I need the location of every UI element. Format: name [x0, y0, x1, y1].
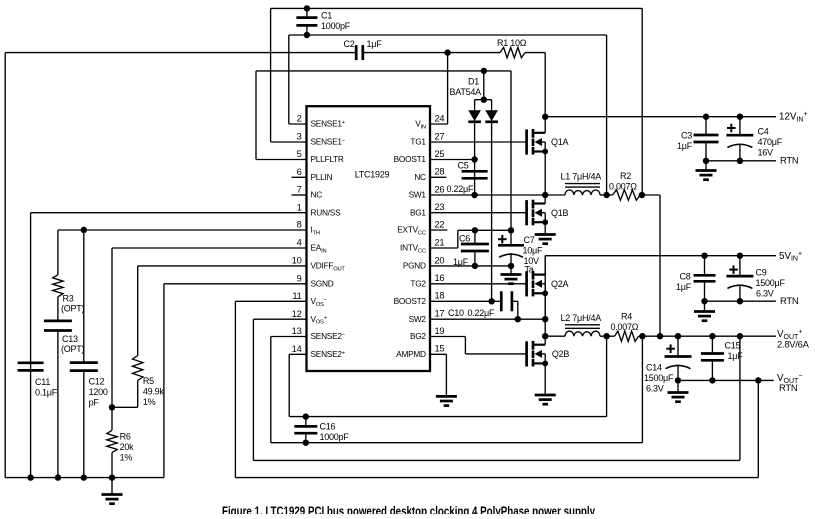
resistor R3 (OPT) [57, 230, 59, 275]
svg-text:470μF: 470μF [758, 137, 783, 147]
svg-text:PLLIN: PLLIN [311, 172, 333, 182]
svg-text:0.22μF: 0.22μF [468, 308, 495, 318]
svg-text:3: 3 [297, 132, 302, 142]
node VOS+ tap [737, 333, 743, 339]
svg-text:6: 6 [297, 167, 302, 177]
svg-text:Q1A: Q1A [551, 137, 569, 147]
svg-text:L2 7μH/4A: L2 7μH/4A [561, 313, 602, 323]
svg-text:22: 22 [435, 219, 445, 229]
node VIN feed junction [444, 49, 450, 55]
svg-text:C3: C3 [681, 131, 692, 141]
EXTVCC pin 22 stub [430, 229, 447, 231]
wire SENSE2+ tap down [606, 336, 608, 416]
inductor L2 7uH/4A [545, 335, 565, 337]
svg-text:C15: C15 [725, 341, 741, 351]
svg-text:Q1B: Q1B [551, 208, 569, 218]
wire D1 left cathode to BOOST1 [474, 122, 476, 195]
wire VOS+ sense run [253, 318, 306, 320]
wire BOOST1 pin [430, 159, 475, 161]
wire ITH row [58, 229, 307, 231]
svg-text:16V: 16V [758, 148, 774, 158]
capacitor C9 (electrolytic) [737, 253, 743, 259]
svg-text:BOOST1: BOOST1 [394, 154, 427, 164]
capacitor C10 [430, 300, 501, 302]
wire far-left vertical [4, 53, 6, 478]
resistor R4 0.007ohm [615, 331, 639, 341]
svg-text:1μF: 1μF [367, 39, 383, 49]
svg-text:PGND: PGND [403, 261, 426, 271]
capacitor C1 [304, 5, 310, 11]
wire SENSE1+ vertical left [288, 35, 290, 124]
node D1 anode tap [481, 68, 487, 74]
node SW2 [542, 316, 548, 322]
svg-text:BG1: BG1 [410, 207, 426, 217]
wire SGND down [164, 283, 307, 285]
svg-text:(OPT): (OPT) [61, 304, 84, 314]
wire AMPMD pin to ground [430, 353, 446, 355]
svg-text:21: 21 [435, 237, 445, 247]
svg-text:R4: R4 [621, 312, 632, 322]
svg-text:15: 15 [435, 344, 445, 354]
svg-text:C2: C2 [343, 39, 354, 49]
svg-text:2.8V/6A: 2.8V/6A [777, 339, 810, 350]
wire INTVCC pin routing [430, 247, 458, 249]
svg-text:0.1μF: 0.1μF [35, 388, 58, 398]
svg-text:1500μF: 1500μF [644, 373, 674, 383]
svg-text:R2: R2 [620, 171, 631, 181]
wire INTVCC drop right [510, 71, 512, 230]
svg-text:1000pF: 1000pF [320, 432, 350, 442]
svg-text:LTC1929: LTC1929 [355, 170, 390, 180]
svg-text:L1 7μH/4A: L1 7μH/4A [561, 172, 602, 182]
node R2 output [639, 192, 645, 198]
svg-text:28: 28 [435, 167, 445, 177]
svg-text:1μF: 1μF [728, 351, 744, 361]
svg-text:0.22μF: 0.22μF [447, 184, 474, 194]
svg-text:27: 27 [435, 131, 445, 141]
svg-text:BAT54A: BAT54A [450, 87, 482, 97]
op-amp/controller U1 LTC1929 box [307, 106, 431, 371]
wire net SENSE1+ rail y=35 [289, 34, 607, 36]
svg-text:6.3V: 6.3V [646, 384, 664, 394]
svg-text:C12: C12 [89, 377, 105, 387]
svg-text:C14: C14 [646, 363, 662, 373]
transistor Q2A [430, 283, 527, 285]
transistor Q2B [465, 353, 526, 355]
svg-text:BOOST2: BOOST2 [394, 296, 427, 306]
transistor Q1B [430, 212, 527, 214]
svg-text:TG1: TG1 [410, 137, 426, 147]
svg-text:1: 1 [297, 202, 302, 212]
svg-text:C7: C7 [524, 235, 535, 245]
wire BG2 routing [430, 336, 465, 338]
svg-text:RTN: RTN [780, 295, 798, 306]
capacitor C6 [474, 230, 476, 244]
svg-text:19: 19 [435, 326, 445, 336]
svg-text:AMPMD: AMPMD [396, 349, 426, 359]
svg-text:RUN/SS: RUN/SS [311, 207, 342, 217]
svg-text:10: 10 [292, 256, 302, 266]
wire 5VIN rail [545, 255, 776, 257]
wire D1 right cathode to BOOST2 [491, 122, 493, 301]
resistor R6 20k 1% [107, 430, 117, 452]
wire VOS- sense down [757, 380, 759, 477]
capacitor C8 [701, 253, 707, 259]
wire VIN input line y=52.6 with C2 and R1 [5, 52, 356, 54]
capacitor C15 [709, 333, 715, 339]
svg-text:4: 4 [297, 238, 302, 248]
svg-text:RTN: RTN [779, 382, 797, 393]
svg-text:20k: 20k [120, 442, 135, 452]
wire VOS- sense run [235, 300, 306, 302]
NC pin 7 stub (left) [292, 194, 307, 196]
svg-text:C1: C1 [321, 11, 332, 21]
node R4 output (SENSE2- tap) [639, 335, 777, 337]
svg-text:C6: C6 [459, 234, 470, 244]
capacitor C4 (electrolytic) [737, 114, 743, 120]
wire INTVCC/PLLFLTR rail y=70.9 [256, 70, 511, 72]
svg-text:1μF: 1μF [677, 141, 693, 151]
svg-text:Q2B: Q2B [552, 349, 570, 359]
svg-text:pF: pF [89, 398, 100, 408]
svg-text:SENSE1+: SENSE1+ [311, 119, 346, 129]
node SW1 [542, 192, 548, 198]
svg-text:C4: C4 [758, 127, 769, 137]
resistor R2 0.007ohm [607, 194, 613, 196]
wire RUN/SS to C11 [31, 212, 307, 214]
svg-text:10μF: 10μF [523, 246, 543, 256]
svg-text:5: 5 [297, 149, 302, 159]
svg-text:NC: NC [311, 190, 323, 200]
capacitor C14 (electrolytic) [675, 333, 681, 339]
wire VOUT- / RTN row [678, 379, 774, 381]
svg-text:17: 17 [435, 309, 445, 319]
wire 5V RTN row [705, 300, 777, 302]
resistor R5 49.9k 1% [133, 356, 143, 381]
svg-text:0.007Ω: 0.007Ω [609, 182, 637, 192]
svg-text:0.007Ω: 0.007Ω [611, 322, 639, 332]
node Q1A drain / 12VIN rail [542, 114, 548, 120]
svg-text:SENSE2+: SENSE2+ [311, 349, 346, 359]
svg-text:1500μF: 1500μF [756, 278, 786, 288]
wire SENSE1+ vertical right to L1/R2 node [606, 35, 608, 195]
node L1/R2 [603, 192, 609, 198]
capacitor C13 (OPT) [44, 320, 72, 323]
transistor Q1A [430, 141, 527, 143]
wire Q2A-Q2B joint [544, 256, 546, 337]
svg-text:C16: C16 [320, 422, 336, 432]
NC pin 28 stub [430, 176, 446, 178]
capacitor C12 [83, 230, 85, 363]
wire SENSE2- tap down [641, 336, 643, 443]
svg-text:6.3V: 6.3V [756, 289, 774, 299]
wire left ground bus [5, 477, 164, 479]
svg-text:1%: 1% [120, 453, 133, 463]
svg-text:7: 7 [297, 185, 302, 195]
resistor R1 [500, 47, 525, 57]
svg-text:C5: C5 [458, 161, 469, 171]
svg-text:D1: D1 [468, 77, 479, 87]
ground Q1B source [535, 233, 556, 236]
wire VDIFFOUT to R5 [138, 265, 307, 267]
svg-text:SW2: SW2 [409, 314, 427, 324]
node R5/R6 junction [109, 404, 115, 410]
ground main [111, 478, 113, 495]
wire net SENSE1- top rail y=8.4 [271, 7, 643, 9]
svg-text:RTN: RTN [780, 155, 798, 166]
wire R2 to VOUT bus [642, 194, 660, 196]
wire SENSE2+ sense run [289, 353, 306, 355]
svg-text:23: 23 [435, 202, 445, 212]
node VOUT bus joins [657, 333, 663, 339]
svg-text:SW1: SW1 [409, 190, 427, 200]
node L2/R4 (SENSE2+ tap) [600, 335, 615, 337]
svg-text:18: 18 [435, 291, 445, 301]
svg-text:C13: C13 [62, 334, 78, 344]
wire EAIN to divider [112, 247, 307, 249]
svg-text:12VIN+: 12VIN+ [779, 111, 808, 123]
svg-text:PLLFLTR: PLLFLTR [311, 154, 344, 164]
capacitor C11 [18, 361, 44, 364]
svg-text:26: 26 [435, 184, 445, 194]
svg-text:SGND: SGND [311, 279, 334, 289]
svg-text:C10: C10 [448, 308, 464, 318]
wire VOS+ sense down [739, 336, 741, 460]
wire SENSE1- vertical left [270, 8, 272, 142]
svg-text:16: 16 [435, 273, 445, 283]
capacitor C5 [462, 170, 488, 173]
diode D1 BAT54A common-anode pair [483, 71, 485, 100]
svg-text:1μF: 1μF [676, 282, 692, 292]
wire VIN pin feed [447, 53, 449, 124]
ground C7/PGND [510, 266, 512, 275]
PLLIN pin 6 stub [292, 176, 307, 178]
wire PGND pin row [430, 265, 511, 267]
svg-text:13: 13 [292, 326, 302, 336]
svg-text:R6: R6 [120, 432, 131, 442]
inductor L1 7uH/4A [545, 194, 565, 196]
wire SENSE2- sense run [271, 336, 307, 338]
capacitor C2 [355, 45, 358, 60]
svg-text:C9: C9 [756, 268, 767, 278]
ground C3 [705, 161, 707, 171]
svg-text:SENSE2−: SENSE2− [311, 331, 346, 341]
node Q2B drain / L2 [542, 333, 548, 339]
svg-text:SENSE1−: SENSE1− [311, 137, 346, 147]
svg-text:14: 14 [292, 344, 302, 354]
svg-text:1000pF: 1000pF [321, 21, 351, 31]
svg-text:BG2: BG2 [410, 331, 426, 341]
wire 12V RTN row [706, 160, 776, 162]
svg-text:24: 24 [435, 113, 445, 123]
svg-text:TG2: TG2 [410, 279, 426, 289]
svg-text:R5: R5 [143, 376, 154, 386]
svg-text:R1 10Ω: R1 10Ω [497, 38, 527, 48]
svg-text:C8: C8 [679, 271, 690, 281]
ground AMPMD [436, 395, 457, 398]
capacitor C7 (tantalum) [510, 230, 512, 245]
svg-text:11: 11 [292, 291, 301, 301]
wire SW2 pin [430, 318, 545, 320]
ground C8 [704, 301, 706, 311]
svg-text:25: 25 [435, 149, 445, 159]
svg-text:8: 8 [297, 220, 302, 230]
svg-text:9: 9 [297, 273, 302, 283]
ground C14 [677, 380, 679, 392]
capacitor C3 [705, 117, 707, 135]
svg-text:2: 2 [297, 114, 302, 124]
svg-text:49.9k: 49.9k [143, 387, 165, 397]
wire 12VIN rail [545, 116, 776, 118]
svg-text:(OPT): (OPT) [61, 344, 84, 354]
svg-text:C11: C11 [35, 377, 50, 387]
svg-text:R3: R3 [63, 294, 74, 304]
svg-text:NC: NC [414, 172, 426, 182]
ground Q2B source [535, 394, 556, 397]
wire PLLFLTR drop [255, 71, 257, 160]
wire SW1 pin to switch node [430, 194, 545, 196]
wire SENSE1- vertical right to R2 output node [641, 8, 643, 195]
svg-text:20: 20 [435, 255, 445, 265]
wire R1 to 12VIN rail [544, 53, 546, 117]
svg-text:Figure 1. LTC1929 PCI bus powe: Figure 1. LTC1929 PCI bus powered deskto… [222, 505, 595, 515]
svg-text:1%: 1% [143, 397, 156, 407]
svg-text:1200: 1200 [89, 387, 108, 397]
capacitor C16 [303, 413, 309, 419]
svg-text:Q2A: Q2A [551, 279, 569, 289]
svg-text:12: 12 [292, 309, 302, 319]
